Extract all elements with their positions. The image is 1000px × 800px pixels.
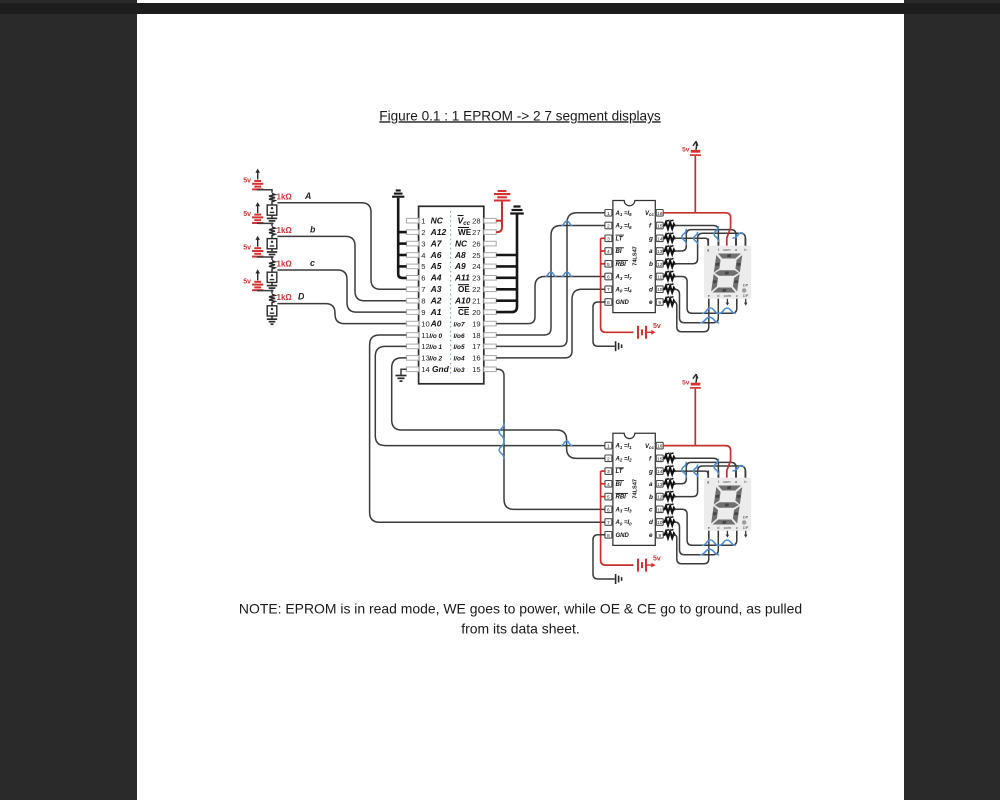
U3 label g <box>648 468 653 475</box>
svg-text:10: 10 <box>657 287 663 293</box>
EPROM pin 3 label A7 <box>421 238 442 248</box>
svg-text:74LS47: 74LS47 <box>633 479 639 499</box>
node label A <box>304 191 311 201</box>
svg-text:6: 6 <box>607 507 610 513</box>
EPROM pin 11 label I/O0 <box>421 331 442 340</box>
7-segment display DS2 body <box>704 478 751 531</box>
svg-text:5v: 5v <box>243 278 251 285</box>
battery 5V display U2 <box>682 141 701 155</box>
resistor seg e U2 <box>663 297 675 306</box>
U2 pin 16 <box>656 210 663 217</box>
battery 5V C <box>243 236 263 257</box>
battery 5V EPROM Vcc <box>494 191 510 201</box>
U3 pin 9 <box>656 532 663 539</box>
svg-text:I/o5: I/o5 <box>454 344 465 351</box>
wire red LT BI RBI rail U3 <box>601 471 634 565</box>
EPROM pin 18 stub <box>484 333 496 338</box>
svg-text:b: b <box>744 479 746 484</box>
EPROM pin 1 label NC <box>421 216 443 226</box>
svg-text:1: 1 <box>421 217 425 226</box>
EPROM pin 23 label A11 <box>454 273 481 283</box>
svg-text:CE: CE <box>458 308 470 317</box>
U3 label c <box>649 507 653 514</box>
svg-text:com: com <box>723 479 730 484</box>
wire b U3 <box>675 466 746 497</box>
svg-text:A8: A8 <box>454 250 466 260</box>
wire hop IO6 over IO5 <box>561 221 572 226</box>
svg-text:8: 8 <box>421 297 425 306</box>
svg-text:Vcc: Vcc <box>645 444 654 450</box>
display DS2 top pins <box>708 471 745 478</box>
svg-text:1kΩ: 1kΩ <box>277 226 293 235</box>
resistor 1k C <box>269 260 292 271</box>
U2 label pin7 <box>615 287 633 293</box>
wire battery B to resistor <box>258 223 272 226</box>
svg-text:I/o 1: I/o 1 <box>429 344 442 351</box>
svg-text:c: c <box>310 258 315 268</box>
U3 pin 7 <box>605 519 612 526</box>
wire c U2 <box>675 277 737 314</box>
ground U3 pin8 <box>593 535 622 584</box>
resistor 1k B <box>269 226 292 237</box>
svg-text:RBI: RBI <box>616 262 627 268</box>
wire IO5 EPROM pin17 to U2 pin1 <box>496 213 605 347</box>
resistor seg e U3 <box>663 530 675 539</box>
svg-text:A10: A10 <box>454 296 471 306</box>
U3 pin 14 <box>656 468 663 475</box>
resistor seg d U2 <box>663 284 675 293</box>
resistor seg g U3 <box>663 466 675 475</box>
resistor seg c U2 <box>663 271 675 280</box>
svg-text:5: 5 <box>421 262 425 271</box>
EPROM U1 body <box>419 206 484 383</box>
wire g U3 <box>675 471 709 478</box>
svg-text:a: a <box>649 481 653 488</box>
svg-text:25: 25 <box>472 251 480 260</box>
ground EPROM address rail <box>392 191 407 278</box>
U2 label c <box>649 274 653 281</box>
EPROM pin 5 label A5 <box>421 261 441 271</box>
svg-text:DP: DP <box>743 525 749 530</box>
svg-text:A3 =I3: A3 =I3 <box>615 507 633 513</box>
EPROM pin 27 label WE <box>458 228 481 237</box>
svg-text:14: 14 <box>657 236 663 242</box>
EPROM pin 14 label Gnd <box>421 364 449 374</box>
EPROM pin 17 stub <box>484 344 496 349</box>
EPROM pin 20 label CE <box>458 308 481 317</box>
EPROM pin 22 stub <box>484 287 496 292</box>
svg-text:b: b <box>649 261 653 268</box>
svg-text:13: 13 <box>657 249 663 255</box>
resistor seg b U2 <box>663 258 675 267</box>
U3 pin 6 <box>605 506 612 513</box>
op-amp U2 74LS47 body <box>613 201 655 313</box>
svg-text:7: 7 <box>421 285 425 294</box>
resistor seg d U3 <box>663 517 675 526</box>
hop b vertical wave U3 <box>694 465 698 477</box>
U3 label Vcc <box>645 444 654 450</box>
U2 label pin6 <box>615 275 633 281</box>
EPROM pin 23 stub <box>484 276 496 281</box>
U3 pin 10 <box>656 519 663 526</box>
svg-text:3: 3 <box>607 236 610 242</box>
svg-text:g: g <box>648 468 653 475</box>
svg-text:b: b <box>649 494 653 501</box>
svg-text:2: 2 <box>607 224 610 230</box>
svg-text:com: com <box>724 293 731 298</box>
wire c U3 <box>675 509 737 545</box>
U2 pin 14 <box>656 235 663 242</box>
EPROM pin 8 stub <box>406 298 418 303</box>
svg-text:9: 9 <box>421 308 425 317</box>
EPROM pin 7 label A3 <box>421 284 441 294</box>
svg-text:A12: A12 <box>430 227 447 237</box>
svg-text:A0 =I4: A0 =I4 <box>615 287 633 293</box>
svg-text:9: 9 <box>658 533 661 539</box>
wire IO4 EPROM pin16 to U2 pin7 <box>496 289 605 358</box>
svg-text:g: g <box>707 479 709 484</box>
svg-text:NC: NC <box>431 216 444 226</box>
EPROM pin 18 label I/O6 <box>454 331 481 340</box>
svg-text:DP: DP <box>743 293 749 298</box>
wire battery A to resistor <box>258 190 272 193</box>
hop b over a U2 <box>733 233 744 238</box>
EPROM pin 8 label A2 <box>421 296 441 306</box>
EPROM pin 21 stub <box>484 298 496 303</box>
svg-text:4: 4 <box>421 251 425 260</box>
svg-text:16: 16 <box>657 444 663 450</box>
wire C to EPROM <box>277 270 406 312</box>
U3 pin 15 <box>656 455 663 462</box>
U3 pin 4 <box>605 481 612 488</box>
wire e U2 <box>674 299 709 332</box>
svg-text:d: d <box>717 293 719 298</box>
svg-text:5v: 5v <box>682 147 690 154</box>
svg-text:RBI: RBI <box>616 495 627 501</box>
svg-text:c: c <box>649 274 653 281</box>
svg-text:5: 5 <box>607 495 610 501</box>
svg-text:1kΩ: 1kΩ <box>277 260 293 269</box>
svg-text:com: com <box>724 525 731 530</box>
U2 label a <box>649 248 653 255</box>
svg-text:A1 =I1: A1 =I1 <box>615 444 633 450</box>
svg-text:2: 2 <box>421 228 425 237</box>
hop c over e and d U2 <box>702 308 736 313</box>
U3 label b <box>649 494 653 501</box>
wire red power to com U2 <box>663 156 731 246</box>
EPROM pin 13 stub <box>406 356 418 361</box>
svg-text:5: 5 <box>607 262 610 268</box>
resistor seg g U2 <box>663 233 675 242</box>
wire a U3 <box>675 462 737 483</box>
svg-text:19: 19 <box>472 319 480 328</box>
svg-text:com: com <box>723 247 730 252</box>
switch A <box>267 203 277 215</box>
EPROM pin 10 label A0 <box>421 318 441 328</box>
node label c <box>310 258 315 268</box>
hop d over e U3 <box>700 549 719 555</box>
ground D <box>267 316 277 324</box>
resistor 1k D <box>269 293 292 304</box>
U3 label f <box>649 456 652 463</box>
svg-text:23: 23 <box>472 274 480 283</box>
svg-text:12: 12 <box>657 495 663 501</box>
wire IO2 EPROM pin13 to U3 pin2 <box>392 358 606 459</box>
U2 pin 3 <box>605 235 612 242</box>
svg-text:22: 22 <box>472 285 480 294</box>
svg-text:5v: 5v <box>243 211 251 218</box>
svg-text:28: 28 <box>472 217 480 226</box>
svg-text:3: 3 <box>607 469 610 475</box>
svg-text:e: e <box>649 299 653 306</box>
svg-text:NC: NC <box>455 238 468 248</box>
wire f U2 <box>675 226 719 246</box>
EPROM pin 11 stub <box>406 333 418 338</box>
svg-text:e: e <box>708 525 710 530</box>
svg-text:OE: OE <box>458 285 470 294</box>
wire hop IO7 over IO5 <box>561 272 572 277</box>
svg-text:20: 20 <box>472 308 480 317</box>
svg-text:c: c <box>736 293 738 298</box>
EPROM pin 15 stub <box>484 367 496 372</box>
hop b vertical wave U2 <box>694 232 698 244</box>
U2 label e <box>649 299 653 306</box>
EPROM pin 16 label I/O4 <box>454 354 481 363</box>
U2 label pin2 <box>615 224 633 230</box>
ground U2 pin8 <box>593 302 622 351</box>
EPROM pin 19 label I/O7 <box>454 319 481 328</box>
svg-text:g: g <box>707 247 709 252</box>
U3 label pin2 <box>615 456 633 462</box>
EPROM pin 10 stub <box>406 321 418 326</box>
U2 label Vcc <box>645 211 654 217</box>
svg-text:16: 16 <box>472 354 480 363</box>
U2 label d <box>649 286 654 293</box>
wire IO1 EPROM pin12 to U3 pin1 <box>375 346 605 445</box>
svg-text:I/o 2: I/o 2 <box>429 356 442 363</box>
ground A <box>267 215 277 223</box>
svg-text:7: 7 <box>607 520 610 526</box>
svg-text:27: 27 <box>472 228 480 237</box>
U3 pin 16 <box>656 442 663 449</box>
ground EPROM pin14 <box>396 369 407 381</box>
svg-text:13: 13 <box>657 482 663 488</box>
EPROM pin 4 label A6 <box>421 250 441 260</box>
U3 label pin3 <box>616 468 624 475</box>
svg-text:A2: A2 <box>430 296 442 306</box>
U2 pin 13 <box>656 248 663 255</box>
wire f U3 <box>675 458 719 477</box>
switch C <box>267 270 277 282</box>
svg-text:A1 =I5: A1 =I5 <box>615 211 633 217</box>
svg-text:18: 18 <box>472 331 480 340</box>
node label b <box>310 224 316 234</box>
svg-text:D: D <box>298 292 305 302</box>
svg-text:A2 =I2: A2 =I2 <box>615 456 633 462</box>
svg-text:5v: 5v <box>682 380 690 387</box>
svg-text:8: 8 <box>607 533 610 539</box>
EPROM pin 25 label A8 <box>454 250 481 260</box>
resistor 1k A <box>269 192 292 203</box>
note text <box>239 601 802 637</box>
wire red Vcc WE <box>496 202 502 233</box>
svg-text:A: A <box>304 191 311 201</box>
battery 5V A <box>243 169 263 190</box>
svg-text:5v: 5v <box>243 245 251 252</box>
resistor seg a U2 <box>663 246 675 254</box>
svg-text:Vcc: Vcc <box>645 211 654 217</box>
wire A to EPROM <box>277 203 406 289</box>
hop b over a U3 <box>733 466 744 471</box>
wire IO7 EPROM pin19 to U2 pin6 <box>496 277 605 324</box>
EPROM pin 14 stub <box>406 367 418 372</box>
wire battery D to resistor <box>258 291 272 294</box>
svg-text:11: 11 <box>421 331 429 340</box>
svg-text:A2 =I6: A2 =I6 <box>615 224 633 230</box>
U2 label pin3 <box>616 235 624 242</box>
svg-text:d: d <box>717 525 719 530</box>
svg-text:1: 1 <box>607 211 610 217</box>
EPROM pin 28 label Vcc <box>458 216 481 228</box>
U2 pin 4 <box>605 248 612 255</box>
U3 pin 2 <box>605 455 612 462</box>
svg-text:1kΩ: 1kΩ <box>277 192 293 201</box>
svg-text:GND: GND <box>616 300 630 306</box>
svg-text:15: 15 <box>472 365 480 374</box>
svg-text:21: 21 <box>472 297 480 306</box>
EPROM pin 9 label A1 <box>421 307 441 317</box>
EPROM pin 21 label A10 <box>454 296 481 306</box>
wire b U2 <box>675 233 746 264</box>
svg-text:A4: A4 <box>430 273 442 283</box>
wire IO0 EPROM pin11 to U3 pin7 <box>370 335 606 522</box>
U3 label pin4 <box>616 481 624 488</box>
svg-text:11: 11 <box>657 507 662 513</box>
U2 label pin5 <box>616 261 629 268</box>
EPROM pin 26 label NC <box>455 238 481 248</box>
svg-text:c: c <box>736 525 738 530</box>
svg-text:a: a <box>649 248 653 255</box>
EPROM pin 28 stub <box>484 218 496 223</box>
svg-text:I/o 0: I/o 0 <box>429 333 442 340</box>
U2 pin 10 <box>656 286 663 293</box>
svg-text:9: 9 <box>658 300 661 306</box>
switch D <box>267 304 277 316</box>
U3 pin 8 <box>605 532 612 539</box>
wire e U3 <box>674 531 709 564</box>
hop d over e U2 <box>700 317 719 323</box>
EPROM pin 12 label I/O1 <box>421 342 442 351</box>
svg-text:b: b <box>310 224 316 234</box>
svg-text:A0 =I0: A0 =I0 <box>615 520 633 526</box>
wire d U3 <box>675 522 719 555</box>
U3 label e <box>649 532 653 539</box>
EPROM pin 17 label I/O5 <box>454 342 481 351</box>
U2 pin 12 <box>656 261 663 268</box>
display DS1 bottom pins <box>709 299 748 306</box>
svg-text:5v: 5v <box>243 178 251 185</box>
wire red LT BI RBI rail U2 <box>601 238 634 332</box>
EPROM pin 1 stub <box>406 218 418 223</box>
svg-text:I/o7: I/o7 <box>454 321 465 328</box>
wire hop IO3 over IO2 IO1 <box>499 423 504 459</box>
svg-text:A6: A6 <box>430 250 442 260</box>
hop f vertical wave U3 <box>714 459 718 475</box>
EPROM pin 24 stub <box>484 264 496 269</box>
svg-text:1kΩ: 1kΩ <box>277 293 293 302</box>
wire IO3 EPROM pin15 to U3 pin6 <box>496 369 605 509</box>
svg-text:e: e <box>649 532 653 539</box>
EPROM pin 2 label A12 <box>421 227 446 237</box>
svg-text:I/o6: I/o6 <box>454 333 465 340</box>
wire IO6 EPROM pin18 to U2 pin2 <box>496 226 605 336</box>
svg-text:74LS47: 74LS47 <box>633 246 639 266</box>
U3 label pin7 <box>615 520 633 526</box>
U2 pin 15 <box>656 222 663 229</box>
U2 pin 7 <box>605 286 612 293</box>
EPROM pin 2 stub <box>406 230 418 235</box>
svg-text:I/o4: I/o4 <box>454 356 465 363</box>
ground C <box>267 282 277 290</box>
U3 label pin1 <box>615 444 633 450</box>
U3 label pin6 <box>615 507 633 513</box>
svg-text:GND: GND <box>616 533 630 539</box>
svg-text:DP: DP <box>743 514 749 519</box>
EPROM pin 26 stub <box>484 241 496 246</box>
EPROM pin 24 label A9 <box>454 261 481 271</box>
7-segment display DS1 body <box>704 246 751 299</box>
display DS2 bottom pins <box>709 531 748 538</box>
EPROM pin 5 stub <box>406 264 418 269</box>
svg-text:A5: A5 <box>430 261 442 271</box>
EPROM pin 25 stub <box>484 253 496 258</box>
U3 pin 12 <box>656 493 663 500</box>
hop a vertical wave U2 <box>682 229 686 245</box>
battery 5V D <box>243 269 263 290</box>
svg-text:16: 16 <box>657 211 663 217</box>
svg-text:10: 10 <box>657 520 663 526</box>
svg-text:A1: A1 <box>430 307 442 317</box>
resistor seg a U3 <box>663 478 675 487</box>
U2 label f <box>649 223 652 230</box>
U3 label pin5 <box>616 493 629 500</box>
wire red power to com U3 <box>663 389 731 478</box>
node label D <box>298 292 305 302</box>
svg-text:A3: A3 <box>430 284 442 294</box>
wire hop IO1 over IO2 <box>561 441 572 446</box>
EPROM pin 19 stub <box>484 321 496 326</box>
resistor seg b U3 <box>663 491 675 500</box>
switch B <box>267 236 277 248</box>
battery 5V U3 rail <box>638 556 661 572</box>
svg-text:Gnd: Gnd <box>432 364 450 374</box>
EPROM pin 12 stub <box>406 344 418 349</box>
EPROM pin 4 stub <box>406 253 418 258</box>
svg-text:8: 8 <box>607 300 610 306</box>
svg-text:3: 3 <box>421 239 425 248</box>
EPROM pin 6 label A4 <box>421 273 441 283</box>
U3 pin 13 <box>656 481 663 488</box>
svg-text:4: 4 <box>607 482 610 488</box>
svg-text:c: c <box>649 507 653 514</box>
svg-text:5v: 5v <box>653 323 661 330</box>
U2 pin 6 <box>605 273 612 280</box>
U3 label GND <box>616 533 630 539</box>
wire battery C to resistor <box>258 257 272 260</box>
svg-text:15: 15 <box>657 456 663 462</box>
svg-text:5v: 5v <box>653 556 661 563</box>
wire d U2 <box>675 289 719 323</box>
